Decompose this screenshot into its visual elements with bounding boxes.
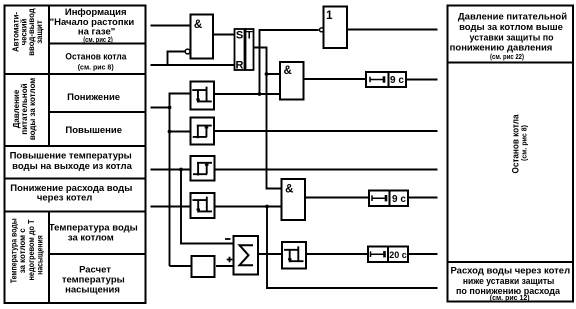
svg-text:через котел: через котел xyxy=(37,193,92,204)
svg-text:(см. рис 8): (см. рис 8) xyxy=(78,65,114,72)
svg-text:Повышение: Повышение xyxy=(65,125,122,136)
svg-text:Давление питательной: Давление питательной xyxy=(458,12,567,23)
svg-text:(см. рис 2): (см. рис 2) xyxy=(83,37,113,44)
svg-text:(см. рис 8): (см. рис 8) xyxy=(522,125,529,161)
svg-text:R: R xyxy=(236,59,244,71)
svg-text:воды на выходе из котла: воды на выходе из котла xyxy=(12,161,132,172)
svg-text:защит: защит xyxy=(35,20,44,43)
svg-text:&: & xyxy=(194,19,202,31)
svg-text:Останов котла: Останов котла xyxy=(65,51,127,62)
svg-text:9 с: 9 с xyxy=(390,75,404,86)
svg-text:20 с: 20 с xyxy=(389,250,407,261)
svg-text:(см. рис 22): (см. рис 22) xyxy=(490,54,524,61)
svg-text:&: & xyxy=(284,65,292,77)
svg-text:Температура воды: Температура воды xyxy=(9,218,18,283)
svg-text:воды за котлом выше: воды за котлом выше xyxy=(459,22,563,33)
svg-text:недогревом до Т: недогревом до Т xyxy=(27,219,36,280)
svg-text:насыщения: насыщения xyxy=(65,285,120,296)
svg-text:9 с: 9 с xyxy=(392,194,406,205)
svg-text:за котлом: за котлом xyxy=(68,233,114,244)
svg-text:1: 1 xyxy=(326,10,333,22)
svg-text:(см. рис 12): (см. рис 12) xyxy=(490,295,530,302)
svg-text:Понижение: Понижение xyxy=(67,92,120,103)
svg-text:понижению давления: понижению давления xyxy=(450,43,553,54)
svg-text:Останов котла: Останов котла xyxy=(511,114,522,174)
svg-text:уставки защиты по: уставки защиты по xyxy=(470,32,554,43)
svg-text:S: S xyxy=(236,30,243,42)
svg-text:воды за котлом: воды за котлом xyxy=(28,78,37,140)
svg-text:за котлом с: за котлом с xyxy=(18,228,27,274)
svg-text:насыщения: насыщения xyxy=(36,235,45,275)
svg-text:T: T xyxy=(246,30,253,42)
svg-text:&: & xyxy=(285,183,293,195)
